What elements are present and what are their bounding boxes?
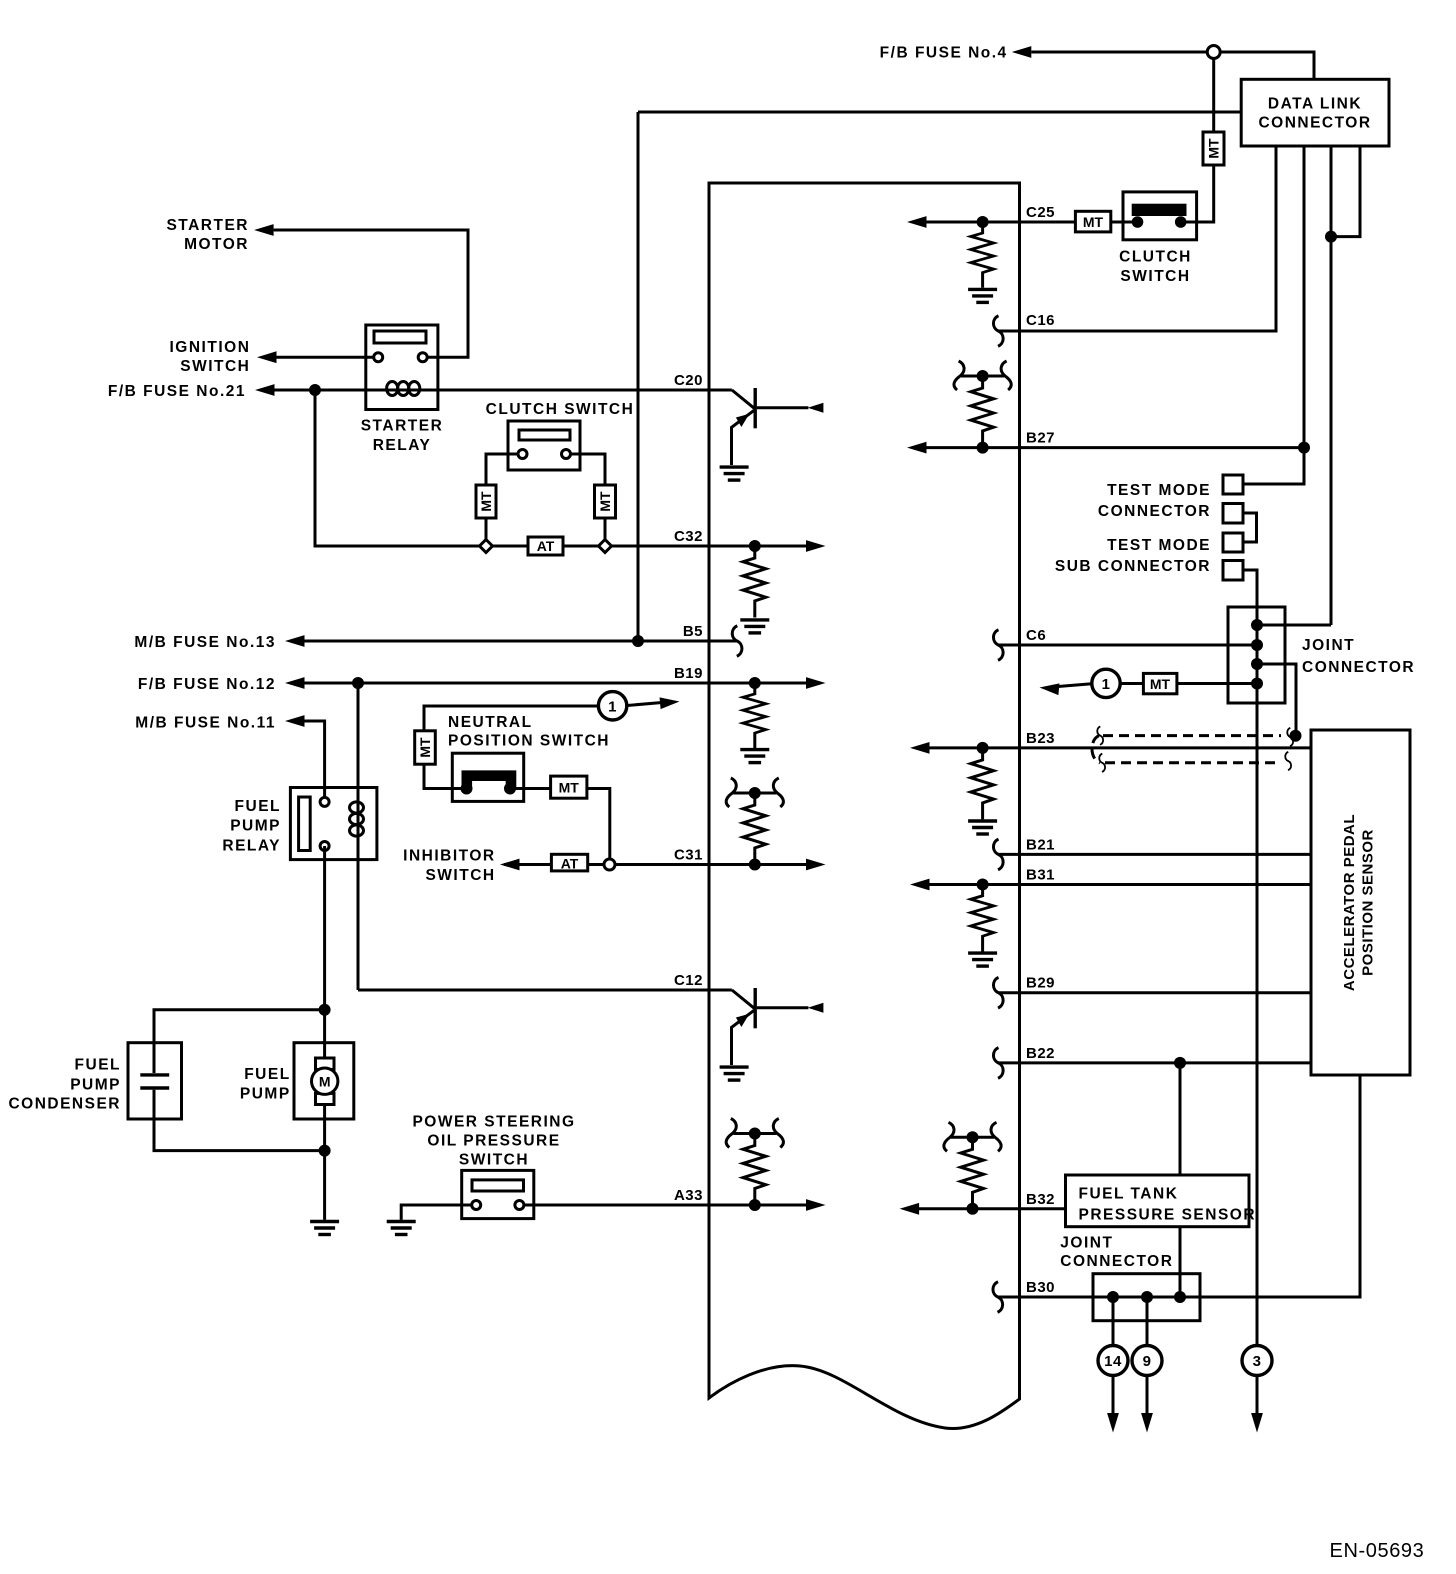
wire fuel pump to ground <box>323 1151 326 1220</box>
connector DATA LINK CONNECTOR <box>1241 79 1389 146</box>
hook rail B27 <box>954 361 1011 390</box>
wire circled 9 to arrow <box>1146 1376 1149 1415</box>
arrow C25 <box>907 216 927 228</box>
node fuel pump bottom junction <box>319 1145 331 1157</box>
switch POWER STEERING OIL PRESSURE SWITCH <box>462 1170 534 1218</box>
arrow circled 1 left <box>1039 682 1059 695</box>
wire joint2 pin1 down <box>1112 1297 1115 1346</box>
svg-text:B21: B21 <box>1026 836 1055 853</box>
svg-text:MT: MT <box>1206 138 1222 159</box>
svg-text:PRESSURE SENSOR: PRESSURE SENSOR <box>1079 1207 1257 1224</box>
svg-text:FUEL: FUEL <box>235 798 281 815</box>
SECTION-BOTTOM <box>900 1075 1425 1562</box>
wire joint pin4 to MT <box>1120 682 1257 685</box>
wire F/B FUSE No.4 to DATA LINK CONNECTOR <box>1031 52 1314 79</box>
svg-text:FUEL: FUEL <box>244 1066 290 1083</box>
node joint2 pin2 <box>1141 1291 1153 1303</box>
capacitor FUEL PUMP CONDENSER <box>128 1043 182 1119</box>
wire joint2 pin2 down <box>1146 1297 1149 1346</box>
MT box clutch left <box>476 485 496 518</box>
connector test mode pin1 <box>1223 475 1243 494</box>
node joint2 pin3 <box>1174 1291 1186 1303</box>
wire B27 <box>927 446 1305 449</box>
MT box joint connector <box>1143 673 1177 693</box>
node B27 right junction <box>1298 442 1310 454</box>
svg-text:NEUTRAL: NEUTRAL <box>448 714 533 731</box>
wire M/B FUSE No.11 to fuel pump relay <box>305 721 325 802</box>
node circled 3 <box>1242 1346 1272 1376</box>
node B5 junction with left bus <box>632 635 644 647</box>
sensor ACCELERATOR PEDAL POSITION SENSOR <box>1311 730 1410 1075</box>
ECM partial outline with torn bottom <box>709 183 1020 1429</box>
wire circled 14 to arrow <box>1112 1376 1115 1415</box>
MT box vertical top <box>1203 132 1224 165</box>
resistor B32 <box>961 1137 984 1209</box>
svg-text:C25: C25 <box>1026 204 1055 221</box>
switch CLUTCH SWITCH (left) <box>508 421 580 470</box>
node B22 junction <box>1174 1057 1186 1069</box>
node B23 junction <box>977 742 989 754</box>
svg-text:POWER STEERING: POWER STEERING <box>412 1113 575 1130</box>
svg-text:C6: C6 <box>1026 627 1046 644</box>
svg-text:F/B FUSE No.21: F/B FUSE No.21 <box>108 383 246 400</box>
wire circled 3 to arrow <box>1256 1376 1259 1415</box>
ground B31 <box>968 953 997 966</box>
svg-text:SWITCH: SWITCH <box>1120 268 1190 285</box>
wire condenser loop bottom <box>154 1090 325 1151</box>
break squiggle B21 <box>993 839 1003 870</box>
svg-text:ACCELERATOR PEDAL: ACCELERATOR PEDAL <box>1341 814 1358 991</box>
svg-text:9: 9 <box>1143 1353 1152 1370</box>
svg-text:F/B FUSE No.12: F/B FUSE No.12 <box>138 676 276 693</box>
svg-text:B19: B19 <box>674 665 703 682</box>
arrow IGNITION SWITCH <box>257 351 277 363</box>
break squiggle shield bottom-left <box>1099 754 1105 772</box>
wire B23 <box>930 746 1312 749</box>
svg-text:B31: B31 <box>1026 867 1055 884</box>
svg-text:M/B FUSE No.13: M/B FUSE No.13 <box>134 634 276 651</box>
arrow STARTER MOTOR <box>254 224 274 236</box>
svg-text:AT: AT <box>537 538 555 554</box>
resistor C31 <box>743 793 766 865</box>
motor FUEL PUMP <box>294 1043 354 1119</box>
ground C32 <box>740 620 769 633</box>
SECTION-LEFT <box>108 217 826 990</box>
svg-text:MT: MT <box>417 737 433 758</box>
svg-text:B32: B32 <box>1026 1191 1055 1208</box>
break squiggle C6 <box>993 630 1003 661</box>
node C31 junction <box>749 859 761 871</box>
svg-text:B5: B5 <box>683 623 703 640</box>
node B19 fuel pump branch <box>352 677 364 689</box>
svg-text:IGNITION: IGNITION <box>170 339 251 356</box>
resistor C32 pull-down <box>743 546 766 618</box>
SECTION-MID <box>8 372 825 1235</box>
switch NEUTRAL POSITION SWITCH <box>452 753 523 801</box>
node A33 junction <box>749 1199 761 1211</box>
arrow F/B FUSE No.21 <box>255 384 275 396</box>
arrow M/B FUSE No.11 <box>285 715 305 727</box>
arrow B19 <box>806 677 826 689</box>
wire B5 <box>305 640 737 643</box>
svg-text:INHIBITOR: INHIBITOR <box>403 848 495 865</box>
svg-text:MT: MT <box>1083 214 1104 230</box>
svg-text:C31: C31 <box>674 847 703 864</box>
arrow A33 <box>806 1199 826 1211</box>
svg-text:CLUTCH: CLUTCH <box>1119 248 1192 265</box>
node open circle inhibitor AT <box>604 859 615 870</box>
resistor B23 pull-down <box>971 748 994 820</box>
node joint pin3 <box>1251 658 1263 670</box>
arrow F/B FUSE No.12 <box>285 677 305 689</box>
arrow circled 14 down <box>1107 1413 1119 1433</box>
svg-text:PUMP: PUMP <box>230 818 281 835</box>
resistor A33 <box>743 1134 766 1206</box>
svg-text:STARTER: STARTER <box>361 418 444 435</box>
transistor C12 <box>720 988 824 1080</box>
AT box on C32 wire <box>528 537 563 555</box>
wire B30 <box>998 1075 1361 1297</box>
connector test mode pin3 <box>1223 533 1243 552</box>
wire joint pin1 to DLC pin3 <box>1257 624 1331 627</box>
wire clutch branch down and AT row / C32 <box>315 390 806 546</box>
ground B19 <box>740 750 769 763</box>
arrow INHIBITOR SWITCH <box>500 859 520 871</box>
wire DLC pin3 down to joint connector <box>1330 146 1333 625</box>
break squiggle shield top-left <box>1097 726 1103 744</box>
node diamond clutch-MT left <box>480 540 493 553</box>
svg-text:OIL PRESSURE: OIL PRESSURE <box>427 1133 560 1150</box>
svg-text:1: 1 <box>1102 676 1111 693</box>
node B31 junction <box>977 879 989 891</box>
wire circled 1 to arrow left <box>1058 684 1092 687</box>
node junction pin3/pin4 <box>1325 231 1337 243</box>
svg-text:C16: C16 <box>1026 312 1055 329</box>
wire condenser loop top <box>154 1010 325 1073</box>
wire B32 <box>919 1207 1066 1210</box>
resistor C25 pull-down <box>971 222 994 288</box>
node B32 junction <box>967 1203 979 1215</box>
SECTION-TOP <box>638 45 1389 642</box>
coil fuel pump relay <box>350 802 364 813</box>
node circled 1 (neutral position switch) <box>598 692 626 720</box>
node circled 9 <box>1132 1346 1162 1376</box>
svg-text:CONDENSER: CONDENSER <box>8 1096 121 1113</box>
arrow M/B FUSE No.13 <box>285 635 305 647</box>
node joint pin1 <box>1251 619 1263 631</box>
wire DLC pin4 down joining pin3 <box>1331 146 1360 237</box>
svg-text:CLUTCH SWITCH: CLUTCH SWITCH <box>486 401 635 418</box>
svg-text:1: 1 <box>608 699 617 716</box>
wire ignition switch to relay <box>277 356 379 359</box>
wire clutch left leg <box>486 454 523 546</box>
ground C25 <box>968 289 997 302</box>
svg-text:JOINT: JOINT <box>1060 1235 1113 1252</box>
resistor B19 pull-down <box>743 683 766 748</box>
arrow B31 <box>910 879 930 891</box>
wire C6 <box>998 644 1257 647</box>
node junction fuse21/clutch branch <box>309 384 321 396</box>
svg-text:PUMP: PUMP <box>70 1076 121 1093</box>
node B27 junction <box>977 442 989 454</box>
svg-text:C12: C12 <box>674 972 703 989</box>
node C32 junction <box>749 540 761 552</box>
break squiggle shield bottom-right <box>1285 752 1291 770</box>
svg-text:B22: B22 <box>1026 1045 1055 1062</box>
svg-text:POSITION SENSOR: POSITION SENSOR <box>1360 829 1377 976</box>
svg-text:CONNECTOR: CONNECTOR <box>1060 1253 1173 1270</box>
break squiggle B29 <box>993 977 1003 1008</box>
wire sensor to joint connector 2 <box>1179 1227 1182 1297</box>
wire B21 <box>998 853 1311 856</box>
svg-text:3: 3 <box>1253 1353 1262 1370</box>
wire DLC pin2 down to B27 <box>1303 146 1306 448</box>
wire B29 <box>998 991 1311 994</box>
AT box inhibitor <box>551 854 587 871</box>
svg-text:DATA LINK: DATA LINK <box>1268 96 1362 113</box>
wire B22 <box>998 1061 1311 1064</box>
svg-text:FUEL: FUEL <box>75 1057 121 1074</box>
shield left arc <box>1092 736 1100 763</box>
relay FUEL PUMP RELAY <box>290 788 377 860</box>
svg-text:PUMP: PUMP <box>240 1085 291 1102</box>
svg-text:POSITION SWITCH: POSITION SWITCH <box>448 732 610 749</box>
svg-text:JOINT: JOINT <box>1302 637 1355 654</box>
connector test mode pin2 <box>1223 504 1243 524</box>
wire sub connector to joint connector bus <box>1243 570 1257 1346</box>
svg-text:SWITCH: SWITCH <box>425 867 495 884</box>
sensor FUEL TANK PRESSURE SENSOR <box>1066 1175 1250 1227</box>
wire fuel pump relay coil branch <box>357 683 360 990</box>
break squiggle B22 <box>993 1048 1003 1079</box>
wire relay to fuel pump <box>323 846 326 1151</box>
svg-text:B23: B23 <box>1026 730 1055 747</box>
relay STARTER RELAY <box>366 325 438 410</box>
svg-text:SUB CONNECTOR: SUB CONNECTOR <box>1055 558 1211 575</box>
node shield junction <box>1290 730 1302 742</box>
connector JOINT CONNECTOR <box>1228 607 1285 703</box>
wire C25 <box>927 221 1138 224</box>
transistor C20 <box>720 388 824 480</box>
svg-text:MOTOR: MOTOR <box>184 236 249 253</box>
wire NPS top branch to circle 1 <box>424 706 598 789</box>
break squiggle C16 <box>993 316 1003 347</box>
MT box NPS right <box>551 776 587 798</box>
svg-text:RELAY: RELAY <box>373 437 432 454</box>
svg-text:RELAY: RELAY <box>222 838 281 855</box>
svg-text:AT: AT <box>561 855 579 871</box>
wire clutch right leg <box>566 454 605 546</box>
svg-text:C32: C32 <box>674 528 703 545</box>
node joint pin2 <box>1251 639 1263 651</box>
svg-text:MT: MT <box>559 780 580 796</box>
wire C12 <box>358 989 732 992</box>
connector test mode sub pin <box>1223 561 1243 581</box>
wire DLC pin1 down to C16 <box>998 146 1276 331</box>
wire B19 <box>305 682 807 685</box>
coil starter relay <box>387 382 398 396</box>
arrow C32 <box>806 540 826 552</box>
svg-text:MT: MT <box>597 491 613 512</box>
resistor B27 <box>971 376 994 448</box>
svg-text:M: M <box>319 1074 331 1090</box>
svg-text:SWITCH: SWITCH <box>459 1151 529 1168</box>
wire PS switch to ground <box>401 1205 476 1220</box>
wire inhibitor / C31 <box>504 863 806 866</box>
switch CLUTCH SWITCH (top) <box>1123 192 1197 240</box>
wire starter motor to relay <box>274 230 468 357</box>
svg-text:SWITCH: SWITCH <box>180 358 250 375</box>
svg-text:CONNECTOR: CONNECTOR <box>1302 659 1415 676</box>
arrow B32 <box>900 1203 920 1215</box>
hook rail B32 <box>944 1122 1001 1151</box>
svg-text:CONNECTOR: CONNECTOR <box>1098 503 1211 520</box>
hook rail C31 <box>726 778 783 807</box>
svg-text:B29: B29 <box>1026 975 1055 992</box>
arrow B27 <box>907 442 927 454</box>
node C25 junction <box>977 216 989 228</box>
node joint pin4 <box>1251 678 1263 690</box>
break squiggle B5 <box>732 626 742 657</box>
svg-text:F/B FUSE No.4: F/B FUSE No.4 <box>880 45 1008 62</box>
svg-text:MT: MT <box>478 491 494 512</box>
shield dashed bottom <box>1105 761 1277 764</box>
svg-text:FUEL TANK: FUEL TANK <box>1079 1186 1179 1203</box>
svg-text:14: 14 <box>1104 1353 1122 1370</box>
ground B23 <box>968 821 997 834</box>
wire node to MT fuse branch <box>1212 52 1215 132</box>
node circled 14 <box>1098 1346 1128 1376</box>
svg-text:CONNECTOR: CONNECTOR <box>1258 115 1371 132</box>
svg-text:C20: C20 <box>674 372 703 389</box>
svg-text:STARTER: STARTER <box>166 217 249 234</box>
wire test mode pin2 to pin3 <box>1243 513 1257 542</box>
svg-text:B27: B27 <box>1026 430 1055 447</box>
svg-text:B30: B30 <box>1026 1279 1055 1296</box>
wire A33 <box>519 1204 806 1207</box>
hook rail A33 <box>726 1119 783 1148</box>
shield dashed top <box>1103 734 1281 737</box>
break squiggle B30 <box>993 1282 1003 1313</box>
node B19 junction <box>749 677 761 689</box>
SECTION-RIGHT <box>907 361 1415 1346</box>
MT box NPS left <box>415 731 436 764</box>
wire F/B FUSE No.21 / C20 <box>275 389 732 392</box>
wire NPS right to MT and down to inhibitor node <box>510 789 610 865</box>
node fuel pump top junction <box>319 1004 331 1016</box>
wire circled 1 to arrow <box>627 703 662 706</box>
wire joint pin3 to shield <box>1257 664 1296 736</box>
ground fuel pump <box>310 1222 339 1235</box>
wire MT branch down to clutch switch <box>1181 165 1214 222</box>
arrow circled 3 down <box>1251 1413 1263 1433</box>
arrow circled 1 right <box>660 696 680 709</box>
arrow C31 <box>806 859 826 871</box>
svg-text:M/B FUSE No.11: M/B FUSE No.11 <box>135 715 276 732</box>
svg-text:MT: MT <box>1150 676 1171 692</box>
MT box on C25 wire <box>1075 211 1110 232</box>
svg-text:TEST MODE: TEST MODE <box>1107 482 1211 499</box>
node diamond clutch-MT right <box>599 540 612 553</box>
MT box clutch right <box>595 485 616 518</box>
resistor B31 pull-down <box>971 885 994 952</box>
ground PS switch <box>387 1222 416 1235</box>
node circled 1 (joint connector) <box>1092 669 1120 697</box>
svg-text:A33: A33 <box>674 1187 703 1204</box>
arrow circled 9 down <box>1141 1413 1153 1433</box>
wire left vertical bus to B5 <box>637 112 640 641</box>
wire B31 <box>930 883 1312 886</box>
wire long horizontal to DLC <box>638 111 1241 114</box>
arrow B23 <box>910 742 930 754</box>
svg-text:EN-05693: EN-05693 <box>1330 1540 1425 1562</box>
connector JOINT CONNECTOR 2 <box>1093 1274 1200 1321</box>
node open circle on F/B FUSE No.4 wire <box>1207 46 1220 59</box>
break squiggle shield top-right <box>1287 728 1293 746</box>
wire B27 to test mode connector <box>1243 448 1304 484</box>
svg-text:TEST MODE: TEST MODE <box>1107 537 1211 554</box>
wire B22 to fuel tank pressure sensor <box>1179 1063 1182 1175</box>
arrow F/B FUSE No.4 <box>1012 46 1032 58</box>
node joint2 pin1 <box>1107 1291 1119 1303</box>
